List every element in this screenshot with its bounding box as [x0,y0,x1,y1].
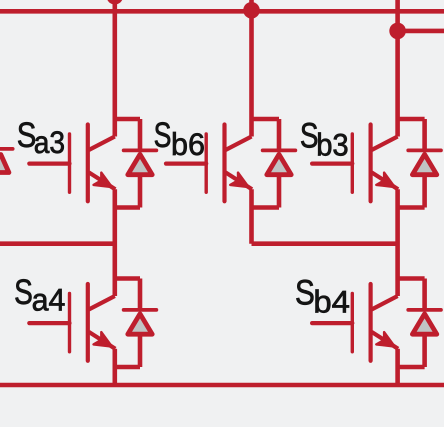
svg-text:S: S [154,115,172,155]
diode DSb3 triangle [412,154,436,174]
transistor Sb3 gate lead [312,162,352,166]
transistor Sb3 emitter arrow [376,173,394,187]
svg-text:b3: b3 [316,127,349,163]
transistor Sa3 main bar [86,125,90,202]
transistor Sa4 gate bar [68,294,71,352]
transistor Sa4 emitter arrow [94,332,112,346]
diode DSb6 triangle [267,154,291,174]
wire leg-b6 emitter to mid rail [249,189,254,243]
transistor Sb6 gate lead [166,162,206,166]
transistor Sa3 gate bar [68,134,71,192]
wire leg-b6 dropper [249,0,254,137]
transistor Sa3 gate lead [29,162,69,166]
diode DSb6 cathode bar [263,149,296,153]
transistor Sb3 main bar [369,125,373,202]
partial diode (cropped leg) triangle [0,155,9,173]
transistor Sb6 main bar [222,125,226,202]
diode DSa3 cathode wire [138,119,143,151]
diode DSb3 cathode bar [408,149,441,153]
diode DSa4 anode wire [138,336,143,367]
wire emitter jog Sb3 [398,205,425,210]
diode DSb6 cathode wire [277,119,282,151]
diode DSb4 anode wire [422,336,427,367]
wire leg-a midsection [113,189,118,296]
transistor Sa3 emitter lead [89,172,116,189]
diode DSb4 cathode wire [422,279,427,311]
diode DSa3 cathode bar [124,149,157,153]
transistor Sb4 gate lead [312,321,352,325]
transistor Sb3 emitter lead [372,172,399,189]
diode DSb4 triangle [412,314,436,334]
transistor Sb6 gate bar [204,134,207,192]
partial diode (cropped leg) cathode bar [0,147,13,151]
transistor Sa4 collector lead [89,296,115,310]
svg-text:b4: b4 [313,284,350,320]
transistor Sa4 gate lead [29,321,69,325]
wire collector jog Sb6 [252,117,280,122]
transistor Sa3 collector lead [89,137,115,151]
svg-text:S: S [14,272,33,312]
diode DSa4 cathode bar [124,308,157,312]
diode DSa3 triangle [128,154,152,174]
wire emitter jog Sb4 [398,365,425,370]
wire emitter jog Sa4 [115,365,140,370]
diode DSa4 cathode wire [138,279,143,311]
wire leg-b bottom section [395,349,400,385]
wire leg-a bottom section [113,349,118,385]
svg-text:S: S [295,273,315,313]
wire emitter jog Sb6 [252,205,280,210]
diode DSb3 anode wire [422,177,427,208]
second DC bus rail (right) [398,29,444,34]
transistor Sa3 emitter arrow [94,173,112,187]
wire leg-a dropper [113,0,118,137]
top DC bus rail [0,9,444,14]
transistor Sa4 main bar [86,284,90,361]
wire collector jog Sa3 [115,117,140,122]
junction dot node Q [243,2,260,19]
junction dot node P (top, clipped) [107,0,124,5]
svg-text:a4: a4 [32,281,66,317]
bottom DC bus rail [0,383,444,388]
diode DSb3 cathode wire [422,119,427,151]
svg-text:b6: b6 [171,126,205,162]
svg-text:a3: a3 [34,124,65,160]
diode DSa3 anode wire [138,177,143,208]
wire phase-a output rail [0,241,115,246]
transistor Sb6 emitter lead [226,172,253,189]
diode DSb6 anode wire [277,177,282,208]
wire collector jog Sb4 [398,276,425,281]
wire phase-b link rail [252,241,398,246]
wire emitter jog Sa3 [115,205,140,210]
wire leg-b midsection [395,189,400,296]
transistor Sb3 collector lead [372,137,398,151]
transistor Sb4 main bar [369,284,373,361]
junction dot node R [389,23,406,40]
wire leg-b dropper [395,0,400,137]
transistor Sb4 gate bar [351,294,354,352]
transistor Sb4 emitter lead [372,332,399,349]
transistor Sb6 emitter arrow [230,173,248,187]
diode DSb4 cathode bar [408,308,441,312]
wire collector jog Sb3 [398,117,425,122]
transistor Sa4 emitter lead [89,332,116,349]
wire collector jog Sa4 [115,276,140,281]
transistor Sb3 gate bar [351,134,354,192]
transistor Sb6 collector lead [226,137,252,151]
diode DSa4 triangle [128,314,152,334]
transistor Sb4 emitter arrow [376,332,394,346]
transistor Sb4 collector lead [372,296,398,310]
